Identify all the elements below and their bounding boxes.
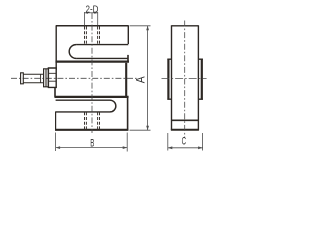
stud: shank end vertical [40,74,42,83]
side view vertical center line [184,21,186,139]
side view upper shoulder lines [167,58,203,60]
upper slot top edge [76,44,128,46]
svg-text:2-D: 2-D [86,3,99,14]
stud: washer collar pair [44,69,49,87]
bottom hole hidden thread lines [84,112,86,129]
lower shoulder thick line [55,96,129,98]
lower slot top edge [56,99,110,101]
dimension B: dimension line [56,147,128,149]
dimension A: extension line top [130,25,151,27]
side view bottom edge [171,129,199,131]
stud: hex nut facet lines [48,73,56,81]
dimension 2-D: dimension line with arrows [85,12,98,14]
dimension B: extension lines [56,133,128,152]
dimension C: extension lines [168,133,203,151]
side view lower shoulder lines [167,98,203,100]
middle box right edge [125,63,127,98]
stud: hex nut body [48,68,56,87]
side view top edge [172,25,199,27]
stud: shank [23,74,43,83]
horizontal center line of front view [11,77,137,79]
dimension A: extension line bottom [130,129,151,131]
side view internal line near bottom [172,119,198,121]
front view left edge upper [55,25,57,70]
svg-text:B: B [90,136,94,148]
side view horizontal center line [162,77,207,79]
side view main body right edge [197,25,199,130]
front view left edge lower [55,112,57,130]
front view right edge stub below slot mouth [127,55,129,62]
front view bottom edge [55,129,128,131]
dimension C: dimension line [168,147,203,149]
dimension A: dimension line [147,26,149,130]
svg-text:C: C [182,135,187,147]
svg-text:A: A [135,76,148,84]
upper slot bottom edge [76,57,127,59]
top hole hidden thread lines [84,27,86,45]
vertical center line of front view [91,13,93,133]
side view main body left edge [171,25,173,130]
side view middle section left edge (thick) [167,59,169,100]
side view middle section right edge (thick) [201,59,203,100]
front view right edge lower [127,98,129,131]
lower slot bottom edge [55,111,110,113]
upper shoulder thick line [55,60,129,62]
dimension 2-D: extension lines [85,12,98,25]
front view right edge upper (above slot mouth) [127,25,129,44]
middle box left edge segment below stud [54,87,56,97]
stud: end cap [21,73,24,84]
upper slot rounded left cap [69,45,76,59]
front view outer: top edge [56,25,128,27]
lower slot rounded right cap [110,100,116,112]
